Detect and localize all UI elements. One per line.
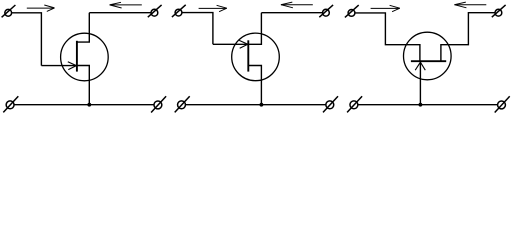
current arrow (leftward): [281, 2, 313, 8]
bottom bus wire: [358, 104, 497, 106]
wire: T1 to gate corner: [12, 13, 42, 66]
gate arrowhead of Q2: [239, 40, 248, 48]
wire: T9 to left lead of Q3: [355, 13, 420, 61]
wire: T10 to right lead of Q3: [441, 13, 495, 62]
terminal T8 (bottom-right open terminal): [323, 96, 338, 112]
Q2 drain stub: [248, 13, 261, 45]
Q2 channel bar: [247, 40, 249, 71]
current arrow (leftward): [454, 2, 486, 8]
junction dot: [260, 103, 264, 107]
junction dot: [87, 103, 91, 107]
gate arrowhead of Q1: [68, 62, 77, 70]
transistor Q1 envelope circle: [61, 33, 109, 81]
transistor Q3 envelope circle: [404, 32, 452, 80]
terminal T9 (top-left open terminal): [345, 5, 359, 17]
terminal T12 (bottom-right open terminal): [495, 96, 510, 112]
Q1 channel bar: [76, 41, 78, 72]
current arrow (rightward): [27, 5, 55, 11]
terminal T6 (top-right open terminal): [319, 5, 333, 17]
terminal T4 (bottom-right open terminal): [151, 96, 166, 112]
terminal T3 (bottom-left open terminal): [3, 96, 18, 112]
wire: T5 to gate corner: [182, 13, 213, 45]
transistor Q2 envelope circle: [232, 33, 280, 81]
Q2 source stub: [248, 66, 261, 105]
current arrow (leftward): [110, 2, 142, 8]
current arrow (rightward): [371, 5, 400, 11]
terminal T7 (bottom-left open terminal): [175, 96, 190, 112]
wire: drain to T6: [261, 12, 322, 14]
wire: gate lead: [41, 65, 76, 67]
wire: gate lead: [213, 43, 248, 45]
Q3 channel bar (horizontal): [411, 60, 446, 62]
terminal T10 (top-right open terminal): [492, 5, 506, 17]
Q1 drain stub: [77, 13, 89, 42]
current arrow (rightward): [199, 5, 227, 11]
terminal T11 (bottom-left open terminal): [347, 96, 362, 112]
terminal T5 (top-left open terminal): [172, 5, 186, 17]
junction dot: [419, 103, 423, 107]
wire: drain to T2: [89, 12, 151, 14]
Q3 gate lead (vertical, from channel down to bus): [419, 62, 421, 105]
terminal T2 (top-right open terminal): [148, 5, 162, 17]
bottom bus wire: [186, 104, 326, 106]
gate arrowhead of Q3 (pointing up at channel): [415, 62, 425, 70]
Q1 source stub: [77, 66, 89, 105]
bottom bus wire: [14, 104, 154, 106]
terminal T1 (top-left open terminal): [2, 5, 16, 17]
